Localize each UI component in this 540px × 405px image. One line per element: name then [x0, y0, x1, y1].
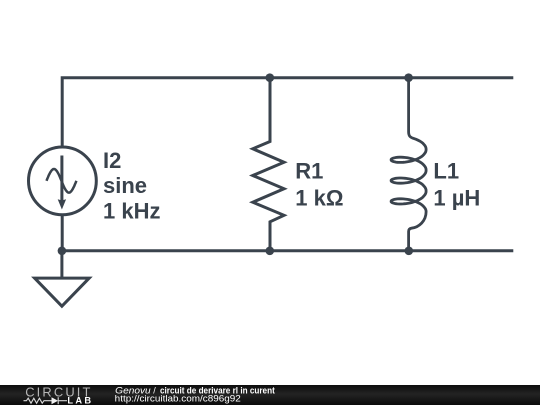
- svg-text:http://circuitlab.com/c896g92: http://circuitlab.com/c896g92: [115, 394, 241, 404]
- svg-text:LAB: LAB: [67, 396, 91, 405]
- svg-text:1 µH: 1 µH: [433, 185, 480, 210]
- svg-text:sine: sine: [103, 173, 147, 198]
- svg-text:L1: L1: [433, 158, 459, 183]
- svg-text:1 kΩ: 1 kΩ: [295, 185, 343, 210]
- svg-text:R1: R1: [295, 158, 323, 183]
- svg-text:I2: I2: [103, 148, 121, 173]
- svg-text:1 kHz: 1 kHz: [103, 198, 160, 223]
